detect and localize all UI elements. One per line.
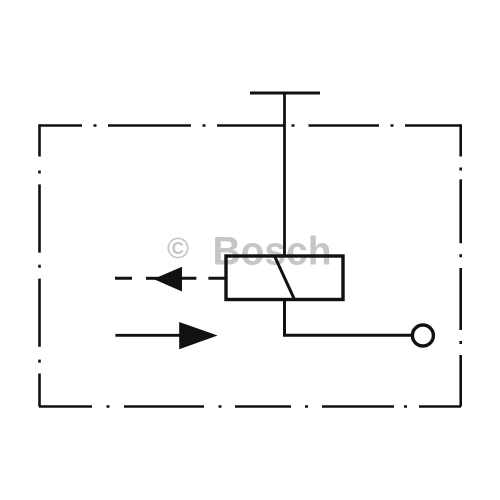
solid right-pointing arrow: shaft [115, 334, 184, 337]
output terminal circle [412, 325, 433, 346]
enclosure boundary: dash-dot frame, right edge [459, 124, 462, 406]
wire: supply bar down to valve box [283, 93, 286, 256]
solid right-pointing arrow: arrowhead [179, 322, 217, 349]
svg-text:Bosch: Bosch [213, 230, 332, 274]
enclosure boundary: dash-dot frame, bottom edge [39, 405, 461, 408]
supply terminal bar [250, 92, 320, 95]
dashed left-pointing arrow: dash segment to valve box [208, 277, 226, 280]
svg-text:©: © [167, 233, 189, 266]
enclosure boundary: dash-dot frame, top edge [39, 124, 461, 127]
wire: valve box bottom down then right to output terminal [285, 300, 412, 336]
enclosure boundary: dash-dot frame, left edge [38, 124, 41, 406]
dashed left-pointing arrow: dash segment 1 [115, 277, 132, 280]
valve box [226, 256, 343, 300]
dashed left-pointing arrow: arrowhead [154, 267, 183, 292]
dashed left-pointing arrow: line behind arrowhead [180, 277, 196, 280]
diagonal actuator line inside valve box [275, 256, 295, 300]
watermark © Bosch [167, 230, 332, 274]
dashed left-pointing arrow: dash into arrowhead [146, 277, 160, 280]
